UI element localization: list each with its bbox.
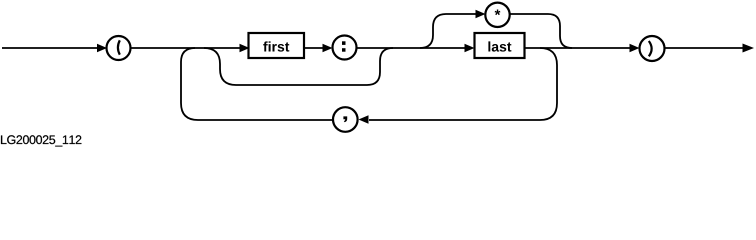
arrowhead loop into comma xyxy=(359,115,369,124)
arrowhead before first xyxy=(240,44,250,53)
terminal star xyxy=(485,3,509,27)
wire exit xyxy=(665,47,744,49)
wire last to ) xyxy=(525,47,631,49)
box last xyxy=(475,33,525,58)
arrowhead entry xyxy=(97,44,107,53)
arrowhead exit xyxy=(743,44,755,53)
wire star return down xyxy=(510,14,573,48)
box first xyxy=(249,33,305,58)
wire entry xyxy=(2,47,97,49)
wire star branch up xyxy=(420,14,477,48)
wire after ( xyxy=(131,47,242,49)
terminal ) xyxy=(640,36,665,61)
arrowhead before close paren xyxy=(630,44,640,53)
terminal comma xyxy=(333,107,358,132)
arrowhead before star xyxy=(476,10,486,19)
figure label LG200025_112 xyxy=(1,135,81,146)
terminal colon xyxy=(333,36,357,60)
wire first to : xyxy=(304,47,323,49)
arrowhead before colon xyxy=(323,44,333,53)
wire bypass first-colon xyxy=(204,48,393,85)
wire : to last xyxy=(357,47,466,49)
terminal ( xyxy=(107,36,131,60)
wire loop right down xyxy=(369,48,557,120)
wire loop left up xyxy=(181,48,333,120)
arrowhead before last xyxy=(465,44,475,53)
